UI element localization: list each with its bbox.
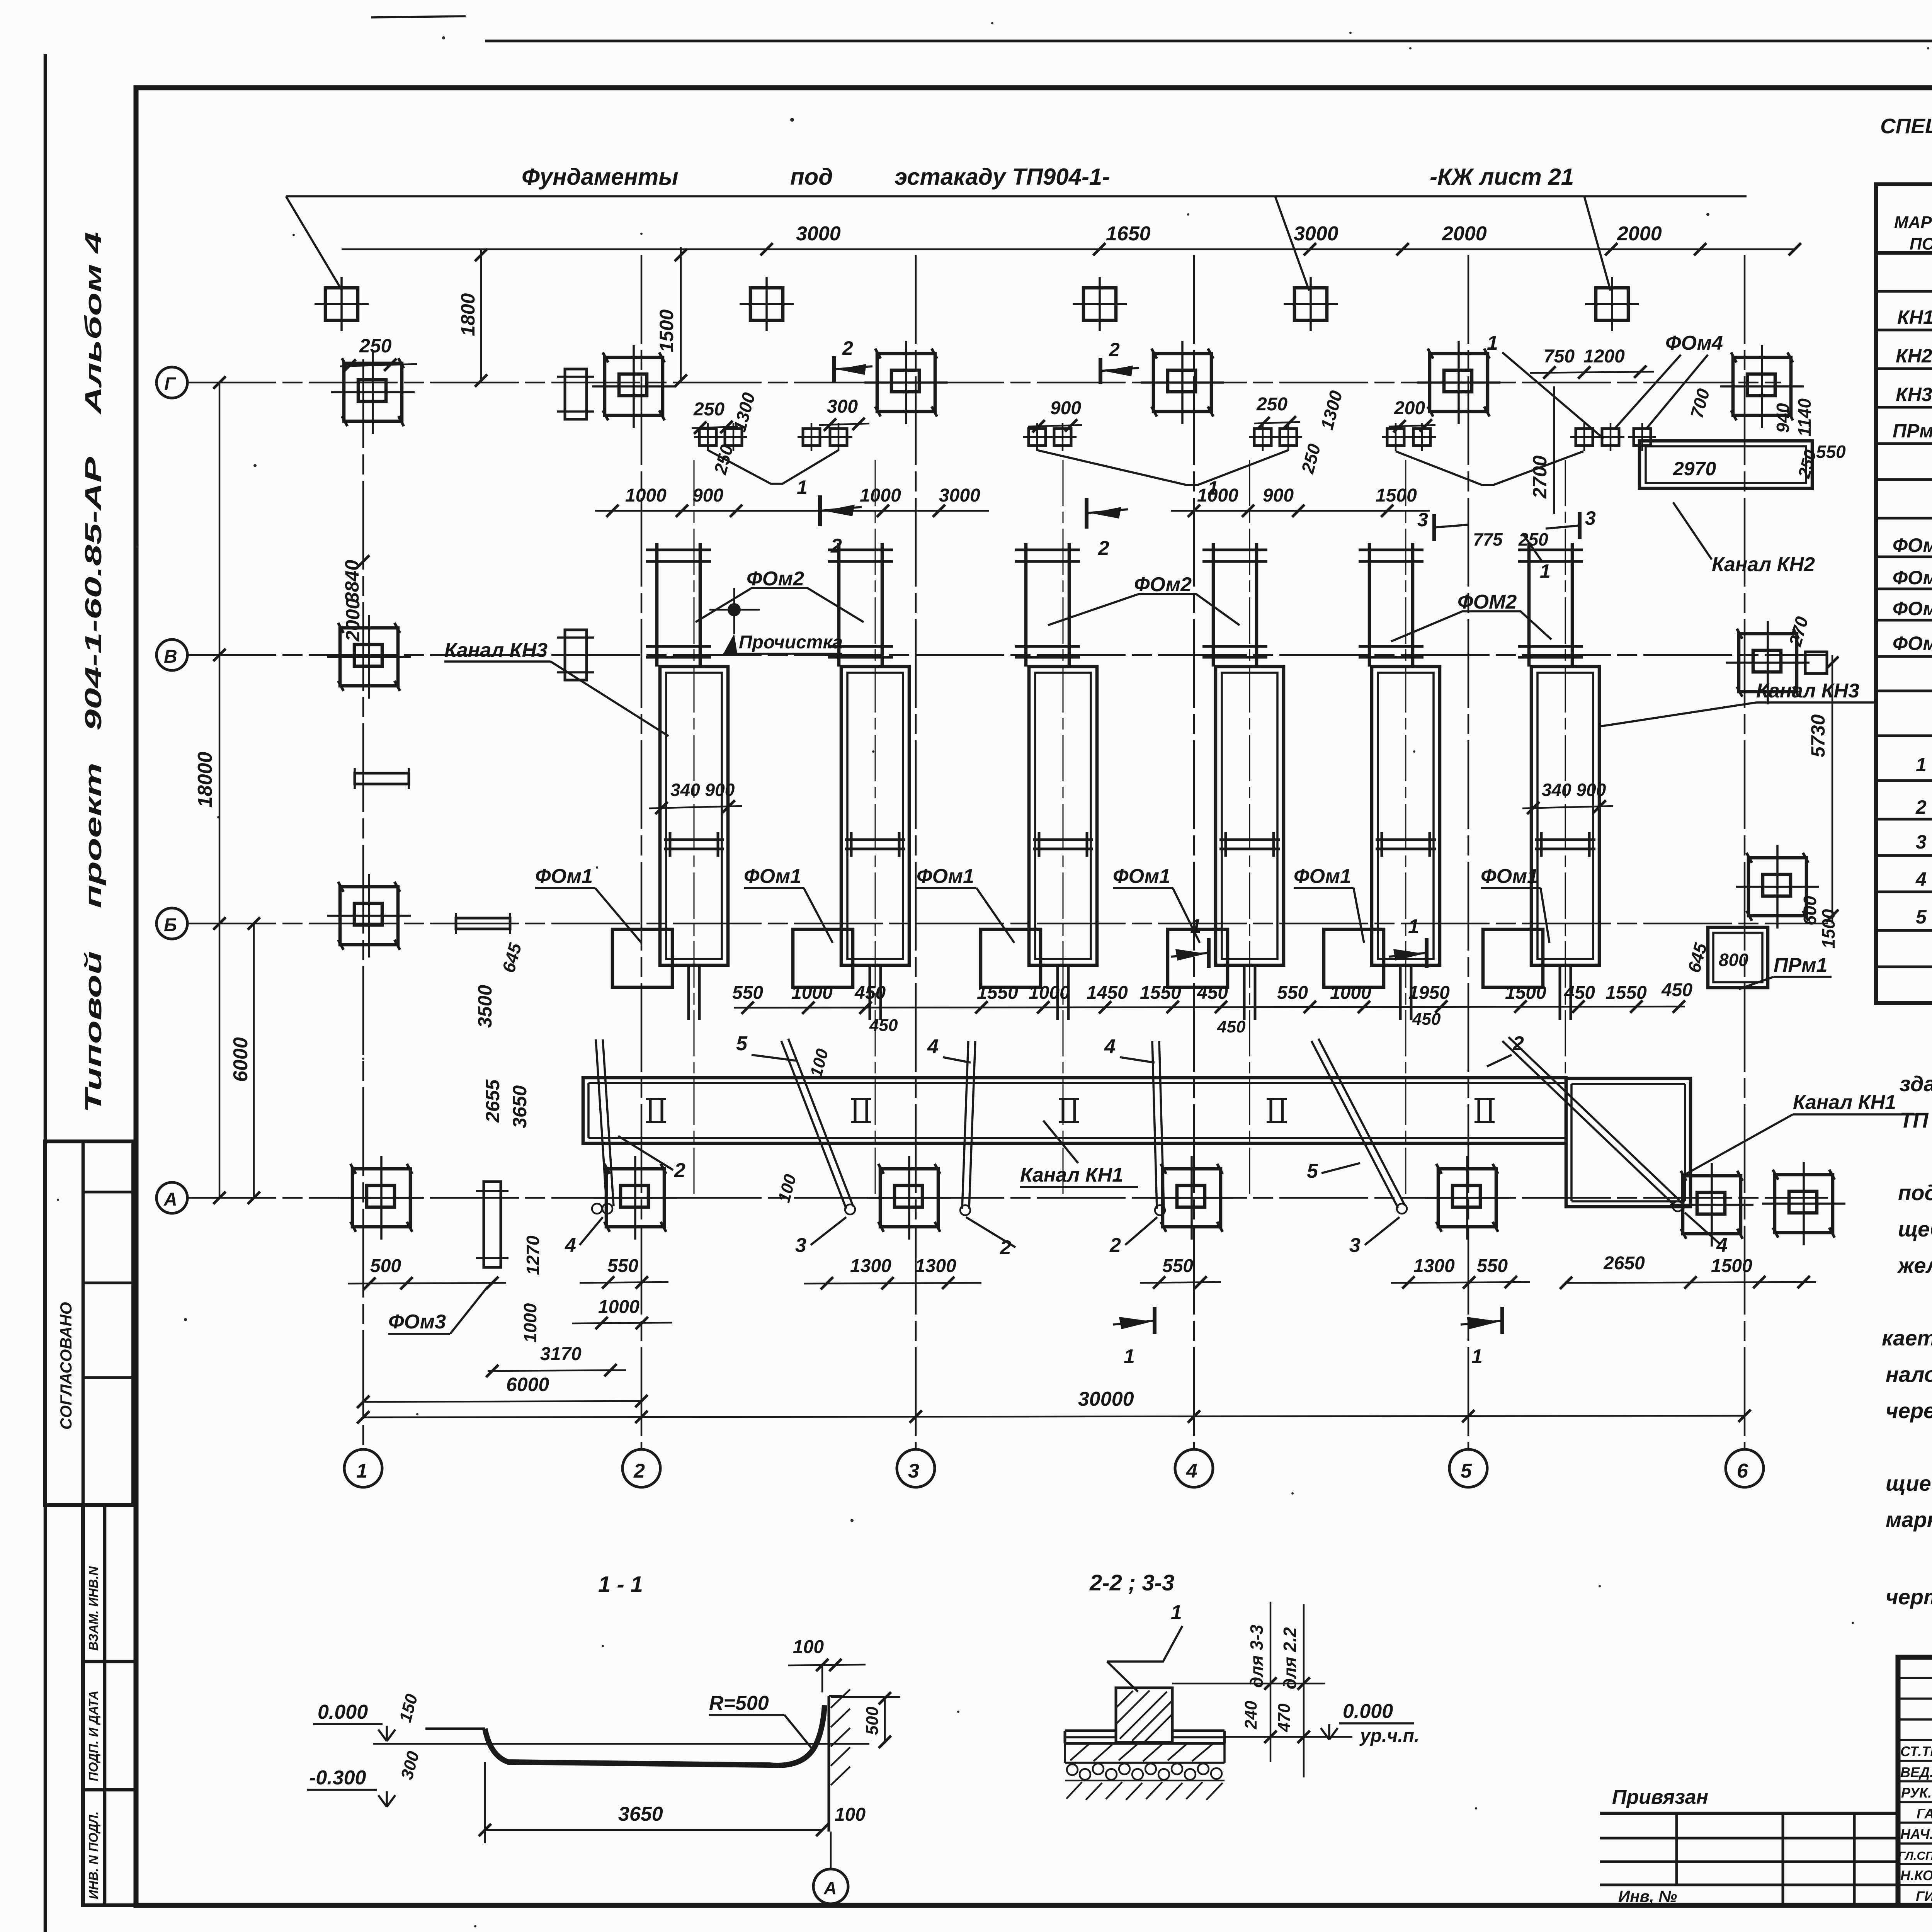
dim 700 rotated — [1686, 386, 1713, 420]
svg-text:1 - 1: 1 - 1 — [598, 1572, 643, 1597]
stem ФОм2 #4 — [1202, 543, 1267, 667]
spec title — [1880, 114, 1932, 138]
label 1 to КН2 — [1487, 332, 1604, 439]
svg-text:ФОм3: ФОм3 — [388, 1311, 446, 1333]
svg-text:1: 1 — [1540, 560, 1551, 582]
Г row footing 6 — [1720, 345, 1804, 428]
drain pipe 2 — [781, 1039, 855, 1214]
label 2 right — [1487, 1032, 1524, 1066]
svg-text:ФОм2: ФОм2 — [1134, 573, 1192, 596]
svg-text:1000: 1000 — [598, 1297, 639, 1317]
label 1 leader — [1107, 1601, 1182, 1692]
label 5 upper — [736, 1032, 796, 1061]
svg-text:550: 550 — [607, 1256, 638, 1276]
svg-text:1300: 1300 — [1413, 1256, 1455, 1276]
привязан box grid — [1600, 1786, 1898, 1905]
svg-text:КН2: КН2 — [1896, 345, 1932, 367]
flange slab — [1065, 1731, 1225, 1763]
axis 3 line — [915, 255, 917, 1449]
axis circle Г — [156, 367, 187, 398]
label 3 bottom-right — [1349, 1217, 1400, 1257]
svg-text:Прочистка: Прочистка — [739, 632, 843, 653]
svg-text:250: 250 — [1518, 529, 1548, 549]
svg-text:Г: Г — [164, 374, 177, 395]
small dims under Г: 900 — [1028, 398, 1082, 432]
svg-text:2: 2 — [1109, 1234, 1121, 1257]
axis 6 line — [1744, 255, 1746, 1449]
svg-text:ФОм1: ФОм1 — [744, 865, 801, 888]
svg-text:А: А — [163, 1189, 177, 1210]
svg-text:500: 500 — [370, 1256, 401, 1276]
stem below channel 5 — [1400, 965, 1411, 1020]
канал КН1 — [583, 1078, 1566, 1143]
svg-text:ГИП: ГИП — [1916, 1888, 1932, 1904]
axis circle 3 — [897, 1449, 935, 1487]
svg-text:налов непучинистым грунтом с: налов непучинистым грунтом с послойным т… — [1886, 1362, 1932, 1386]
dim 240 rotated — [1242, 1701, 1260, 1730]
В row small square right — [1805, 652, 1827, 673]
Г row footing 3 — [864, 341, 948, 424]
dim row 1000 900 ... — [595, 485, 1430, 517]
svg-text:здания и фундаментных балок вы: здания и фундаментных балок выполнена на… — [1900, 1071, 1932, 1096]
ФОм2 label 3 — [1391, 591, 1551, 641]
svg-text:0.000: 0.000 — [318, 1701, 368, 1723]
axis А circle section — [813, 1832, 848, 1904]
Г row footing 5 — [1417, 341, 1500, 424]
bottom dim 1000a — [572, 1297, 672, 1329]
dim 100 rot at pipe3 — [774, 1172, 800, 1204]
svg-text:ФОм4: ФОм4 — [1893, 633, 1932, 654]
svg-text:3000: 3000 — [796, 223, 841, 245]
svg-text:4: 4 — [1716, 1234, 1728, 1257]
svg-text:1500: 1500 — [656, 310, 677, 352]
small dims under Г: 300 — [819, 396, 869, 431]
dim 250 rot a — [710, 442, 737, 477]
small dims under Г: 250b — [1254, 394, 1300, 429]
канал КН3 #1 — [660, 667, 728, 965]
svg-text:1300: 1300 — [850, 1256, 891, 1276]
axis circle 5 — [1449, 1449, 1487, 1487]
svg-text:30000: 30000 — [1078, 1388, 1134, 1410]
приямок box — [1566, 1078, 1690, 1207]
dim 1500 vertical — [656, 247, 687, 387]
axis circle 6 — [1726, 1449, 1764, 1487]
svg-text:5730: 5730 — [1807, 714, 1829, 757]
svg-text:900: 900 — [1263, 485, 1294, 506]
channel center line 6 — [1565, 460, 1566, 1198]
svg-text:1200: 1200 — [1583, 346, 1625, 367]
dim 3500 rotated — [474, 985, 496, 1028]
label 4 upper-left — [927, 1036, 971, 1063]
ground hatch below — [1066, 1782, 1223, 1800]
leader group 2 label 1 — [1037, 450, 1288, 499]
svg-text:3650: 3650 — [509, 1085, 531, 1128]
ФОм1 labels — [535, 865, 1549, 943]
svg-text:240: 240 — [1242, 1701, 1260, 1730]
bottom dim line section2 — [1225, 1736, 1352, 1738]
svg-text:1800: 1800 — [457, 293, 479, 336]
top dim row — [342, 223, 1801, 255]
bottom dim 1300c 550 — [1391, 1256, 1530, 1289]
svg-text:ФОм4: ФОм4 — [1665, 332, 1723, 354]
svg-text:450: 450 — [854, 983, 886, 1003]
personnel labels — [1898, 1743, 1932, 1904]
dim 150 rotated — [396, 1692, 421, 1724]
А row footings — [340, 1156, 1845, 1247]
svg-text:3: 3 — [1349, 1234, 1361, 1257]
lower-left stamp table — [83, 1505, 136, 1905]
svg-text:900: 900 — [1050, 398, 1081, 418]
svg-text:3: 3 — [908, 1460, 919, 1482]
svg-text:550: 550 — [1816, 442, 1846, 462]
svg-text:2000: 2000 — [342, 599, 364, 642]
dim 940 rotated — [1773, 403, 1793, 433]
channel center line 1 — [694, 460, 695, 1198]
svg-text:250: 250 — [693, 399, 724, 420]
footing stem hatched — [1116, 1688, 1172, 1742]
bar mark axis1 mid — [355, 768, 409, 789]
sheet edge top — [371, 16, 1932, 41]
svg-text:1: 1 — [1916, 754, 1927, 776]
svg-text:Б: Б — [164, 915, 177, 935]
R=500 label — [709, 1692, 813, 1750]
svg-text:Н.КОНТР.: Н.КОНТР. — [1900, 1867, 1932, 1883]
svg-text:200: 200 — [1394, 398, 1425, 418]
канал КН3 #6 — [1531, 667, 1599, 965]
svg-text:450: 450 — [869, 1016, 898, 1035]
канал КН3 #3 — [1029, 667, 1097, 965]
svg-text:Канал КН3: Канал КН3 — [444, 639, 548, 662]
axis Б line — [187, 923, 1828, 925]
label 3 bottom-left — [795, 1217, 846, 1257]
svg-text:940: 940 — [1773, 403, 1793, 433]
svg-text:ПРм1: ПРм1 — [1774, 954, 1827, 976]
section flag 2 upper-right — [1087, 498, 1128, 560]
svg-text:1550: 1550 — [1140, 983, 1181, 1003]
axis 4 line — [1193, 255, 1195, 1449]
svg-text:ВЕД.ИНЖ: ВЕД.ИНЖ — [1900, 1764, 1932, 1780]
svg-text:18000: 18000 — [194, 752, 216, 808]
svg-text:1000: 1000 — [791, 983, 833, 1003]
label 1 between — [1522, 533, 1551, 582]
svg-text:ФОм2: ФОм2 — [747, 568, 804, 590]
ФОм4 squares — [1570, 423, 1656, 451]
svg-text:1000: 1000 — [1330, 983, 1371, 1003]
svg-text:1500: 1500 — [1376, 485, 1417, 506]
svg-text:щебня или гравия крупностью 4: щебня или гравия крупностью 40-60мм. под… — [1898, 1217, 1932, 1241]
axis А line — [187, 1197, 1828, 1199]
section 1-1 title — [598, 1572, 643, 1597]
svg-text:РУК. ГР.: РУК. ГР. — [1901, 1785, 1932, 1801]
axis 5 line — [1468, 255, 1469, 1449]
svg-text:2: 2 — [633, 1460, 645, 1482]
small dims under Г: 250 — [692, 399, 738, 434]
svg-text:1: 1 — [1471, 1345, 1483, 1368]
svg-text:3: 3 — [795, 1234, 806, 1257]
dim 3650 rotated — [509, 1085, 531, 1128]
svg-text:ФОм1: ФОм1 — [1113, 865, 1170, 888]
svg-text:450: 450 — [1412, 1010, 1441, 1029]
svg-text:1000: 1000 — [520, 1303, 540, 1343]
прочистка callout — [709, 588, 843, 654]
dim 3650 section — [479, 1762, 828, 1843]
svg-text:ТП 904. 1 -60.85- КЖ.: ТП 904. 1 -60.85- КЖ. — [1900, 1108, 1932, 1132]
dim texts under channels — [732, 980, 1692, 1003]
svg-text:1: 1 — [1171, 1601, 1182, 1624]
bottom dim 1300 1300 — [804, 1256, 981, 1289]
svg-text:470: 470 — [1275, 1703, 1294, 1732]
section flag 1 bottom-right — [1461, 1307, 1502, 1368]
svg-text:подземных конструкций выполнят: подземных конструкций выполнять путем вт… — [1898, 1180, 1932, 1205]
svg-text:R=500: R=500 — [709, 1692, 769, 1714]
svg-text:1500: 1500 — [1818, 909, 1838, 949]
dim 2655 rotated — [482, 1079, 503, 1123]
ФОм3 bar — [476, 1182, 509, 1267]
svg-text:Привязан: Привязан — [1612, 1786, 1708, 1808]
drain pipe 6 — [1502, 1037, 1683, 1211]
dim 250 rot b — [1297, 442, 1324, 476]
Б row bar mark — [456, 913, 510, 934]
svg-text:2: 2 — [674, 1159, 685, 1182]
dim 6000 bottom — [357, 1374, 648, 1408]
svg-text:СПЕЦИФИКАЦИЯ К СХЕМЕ РАСПОЛОЖЕ: СПЕЦИФИКАЦИЯ К СХЕМЕ РАСПОЛОЖЕНИЯ ПОДЗЕМ… — [1880, 114, 1932, 138]
svg-text:ФОм1: ФОм1 — [1481, 865, 1538, 888]
Г row bar mark — [557, 369, 594, 419]
svg-text:Канал КН2: Канал КН2 — [1712, 553, 1815, 576]
drain pipe 5 — [1311, 1039, 1407, 1214]
svg-text:3500: 3500 — [474, 985, 496, 1028]
stem ФОм2 #1 — [646, 543, 711, 667]
small square cluster 3 — [1023, 423, 1077, 451]
svg-text:550: 550 — [732, 983, 763, 1003]
svg-text:1950: 1950 — [1408, 983, 1450, 1003]
small square cluster 1 — [694, 423, 747, 451]
svg-text:ФОм3: ФОм3 — [1893, 598, 1932, 619]
svg-text:100: 100 — [793, 1637, 824, 1657]
svg-text:ФОм2: ФОм2 — [1893, 567, 1932, 588]
gravel layer — [1065, 1764, 1225, 1781]
dim 1140 rotated — [1794, 398, 1815, 437]
section flag 1 bottom-left — [1113, 1307, 1155, 1368]
согласовано table — [45, 1141, 133, 1505]
dim 100 right section — [835, 1804, 866, 1825]
bottom dim 550a — [580, 1256, 668, 1289]
svg-text:марки БН 70/30 ГОСТ 6617- 76*: марки БН 70/30 ГОСТ 6617- 76*по холодной… — [1886, 1507, 1932, 1532]
svg-text:ПРм1: ПРм1 — [1893, 420, 1932, 442]
dim line для 3-3 — [1247, 1602, 1277, 1762]
svg-text:3: 3 — [1916, 831, 1927, 853]
drain pipe 3 — [960, 1041, 975, 1215]
dim 470 rotated — [1275, 1703, 1294, 1732]
spec rows text — [1893, 268, 1932, 929]
В row bar mark — [557, 630, 594, 680]
axis В line — [187, 654, 1828, 656]
svg-text:4: 4 — [1186, 1460, 1197, 1482]
svg-text:ИНВ. N ПОДЛ.: ИНВ. N ПОДЛ. — [86, 1811, 100, 1899]
section flag 3 left — [1417, 509, 1468, 541]
top dim line section2 — [1172, 1683, 1325, 1685]
svg-text:3170: 3170 — [540, 1344, 582, 1364]
stem ФОм2 #6 — [1518, 543, 1583, 667]
svg-text:ФОм1: ФОм1 — [535, 865, 593, 888]
svg-text:щиеся в грунте, обмазать за 2: щиеся в грунте, обмазать за 2раза горячи… — [1886, 1471, 1932, 1495]
svg-text:100: 100 — [835, 1804, 866, 1825]
heading leader right — [1584, 196, 1611, 291]
КН2 dim 550 — [1816, 442, 1846, 462]
label 4 bottom-left — [565, 1217, 603, 1257]
svg-text:1650: 1650 — [1106, 223, 1151, 245]
Б row footing 1 — [327, 874, 411, 957]
dim 2000 rotated — [342, 599, 364, 642]
svg-text:550: 550 — [1477, 1256, 1508, 1276]
axis circle Б — [156, 908, 187, 939]
svg-text:450: 450 — [1661, 980, 1692, 1000]
axis 1 line — [362, 359, 364, 1449]
section flag 2 at Г right — [1100, 339, 1139, 384]
канал КН3 label left — [444, 639, 668, 736]
dim row under channels — [734, 1000, 1685, 1014]
svg-text:ВЗАМ. ИНВ.N: ВЗАМ. ИНВ.N — [86, 1566, 100, 1651]
title block main frame — [1898, 1657, 1932, 1905]
drain pipe 1 — [592, 1039, 614, 1214]
svg-text:1: 1 — [797, 476, 808, 498]
label 2 bottom-a — [966, 1217, 1015, 1259]
svg-text:1000: 1000 — [1029, 983, 1070, 1003]
svg-text:Инв, №: Инв, № — [1618, 1887, 1677, 1905]
dim 6000 vertical — [230, 917, 260, 1204]
svg-text:1000: 1000 — [625, 485, 667, 506]
stem ФОм2 #3 — [1015, 543, 1080, 667]
svg-text:ГАП: ГАП — [1917, 1806, 1932, 1821]
В row footing 1 — [327, 615, 411, 699]
svg-text:ПОЗ.: ПОЗ. — [1910, 235, 1932, 253]
bottom dim 2650 1500 — [1560, 1253, 1816, 1289]
section flag 3 right — [1546, 507, 1596, 539]
trough profile — [425, 1705, 825, 1765]
dim 1300 rot a — [729, 390, 759, 434]
svg-text:340 900: 340 900 — [670, 780, 735, 800]
svg-text:2970: 2970 — [1673, 458, 1716, 480]
heading Фундаменты под эстакаду — [286, 164, 1747, 196]
dim 1000 rotated — [520, 1303, 540, 1343]
svg-text:1140: 1140 — [1794, 398, 1815, 437]
svg-text:А: А — [823, 1878, 837, 1898]
ФОм1 block #5 — [1324, 929, 1384, 987]
svg-text:Канал КН3: Канал КН3 — [1756, 680, 1859, 702]
svg-text:Типовой проект 904-1-60.8: Типовой проект 904-1-60.85-АР Альбом 4 — [80, 232, 106, 1113]
svg-text:3: 3 — [1585, 507, 1596, 529]
dim 3840 rotated — [341, 555, 369, 603]
svg-text:под: под — [790, 164, 833, 190]
svg-text:КН3: КН3 — [1896, 384, 1932, 405]
svg-text:1: 1 — [1487, 332, 1498, 354]
ФОм1 block #1 — [612, 929, 672, 987]
svg-text:2700: 2700 — [1529, 456, 1551, 499]
svg-text:ФОМ2: ФОМ2 — [1458, 591, 1517, 613]
label 4 upper-right — [1104, 1036, 1155, 1063]
axis circle 1 — [344, 1449, 382, 1487]
svg-text:1500: 1500 — [1711, 1256, 1752, 1276]
stem below channel 6 — [1560, 965, 1571, 1020]
svg-text:450: 450 — [1564, 983, 1595, 1003]
dim 775 250 — [1473, 529, 1548, 549]
svg-text:1450: 1450 — [1087, 983, 1128, 1003]
канал КН3 #2 — [841, 667, 909, 965]
svg-text:450: 450 — [1217, 1017, 1246, 1036]
dim 2700 rotated — [1529, 386, 1554, 514]
dim 800 — [1719, 950, 1748, 970]
level 0.000 left — [313, 1701, 395, 1741]
svg-text:775: 775 — [1473, 529, 1503, 549]
канал КН2 box — [1639, 441, 1812, 488]
svg-text:5: 5 — [1916, 906, 1927, 928]
wall right hatched — [829, 1689, 850, 1832]
svg-text:ур.ч.п.: ур.ч.п. — [1359, 1726, 1419, 1746]
bottom dim 500 — [348, 1256, 506, 1290]
svg-text:4: 4 — [927, 1036, 939, 1058]
dim 1800 vertical — [457, 249, 487, 387]
small square cluster 2 — [798, 423, 852, 451]
dim 250 rotated near КН2 — [1794, 447, 1820, 480]
svg-text:1: 1 — [1124, 1345, 1135, 1368]
svg-text:для 3-3: для 3-3 — [1247, 1624, 1267, 1688]
ФОм3 label — [388, 1287, 488, 1334]
svg-text:3650: 3650 — [618, 1803, 663, 1825]
label 4 bottom-right — [1685, 1213, 1728, 1257]
axis circle 2 — [622, 1449, 660, 1487]
svg-text:4: 4 — [1915, 868, 1927, 890]
svg-text:-КЖ лист 21: -КЖ лист 21 — [1430, 164, 1574, 190]
svg-text:2650: 2650 — [1603, 1253, 1645, 1274]
Г row footing 2 — [592, 345, 675, 428]
svg-text:кается производить после монт: кается производить после монтажа плит пе… — [1882, 1326, 1932, 1350]
канал КН3 #4 — [1216, 667, 1284, 965]
svg-text:2: 2 — [842, 337, 853, 359]
svg-text:5: 5 — [1307, 1160, 1318, 1182]
svg-text:250: 250 — [359, 335, 392, 357]
dim line для 2.2 — [1280, 1604, 1310, 1777]
dim 3170 — [486, 1344, 626, 1377]
340 900 dim channel 1 — [649, 780, 742, 814]
svg-text:Фундаменты: Фундаменты — [522, 164, 679, 190]
канал КН3 #5 — [1372, 667, 1440, 965]
section flag 1 mid-right — [1389, 915, 1427, 968]
ground line section 1-1 — [373, 1743, 869, 1745]
svg-text:2: 2 — [1109, 339, 1120, 361]
dim 500 right rotated — [831, 1692, 900, 1748]
канал КН1 label right — [1685, 1091, 1917, 1175]
svg-text:500: 500 — [863, 1706, 882, 1735]
ФОм1 block #3 — [981, 929, 1041, 987]
dim 250 top-left — [340, 335, 417, 372]
svg-text:2655: 2655 — [482, 1079, 503, 1123]
340 900 dim channel 6 — [1522, 780, 1613, 814]
dim 30000 — [357, 1388, 1751, 1423]
svg-text:550: 550 — [1162, 1256, 1193, 1276]
level 0.000 section2 — [1321, 1700, 1419, 1746]
ФОм1 block #2 — [793, 929, 853, 987]
section 2-2 3-3 title — [1089, 1570, 1174, 1595]
svg-text:СОГЛАСОВАНО: СОГЛАСОВАНО — [57, 1302, 75, 1430]
svg-text:340 900: 340 900 — [1542, 780, 1606, 800]
axis circle 4 — [1175, 1449, 1213, 1487]
svg-text:6000: 6000 — [506, 1374, 549, 1395]
ПРм1 label — [1739, 954, 1832, 989]
stem below channel 4 — [1244, 965, 1255, 1020]
vertical title: Типовой проект 904-1-60.85-АР Альбом 4 — [80, 232, 106, 1113]
axis 2 line — [641, 255, 643, 1449]
section flag 2 at Г left — [834, 337, 872, 383]
